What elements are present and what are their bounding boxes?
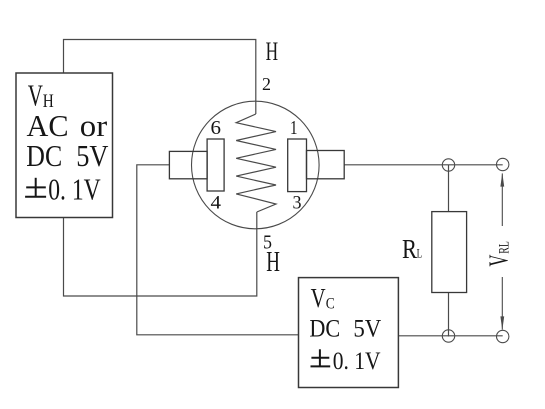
svg-text:R: R <box>402 233 418 264</box>
svg-text:H: H <box>266 37 279 66</box>
svg-text:1: 1 <box>290 117 298 139</box>
svg-text:DC: DC <box>309 313 340 342</box>
heater resistor zigzag <box>236 114 276 212</box>
svg-text:V: V <box>482 255 513 267</box>
svg-text:0. 1V: 0. 1V <box>48 172 100 206</box>
VRL arrowhead down <box>500 316 504 330</box>
svg-text:6: 6 <box>211 117 222 139</box>
label VRL output voltage rotated <box>482 241 513 266</box>
wire RL bottom branch <box>448 293 450 337</box>
wire right electrode to output node <box>344 164 503 166</box>
svg-text:H: H <box>266 247 280 278</box>
svg-text:L: L <box>417 245 423 260</box>
svg-text:0. 1V: 0. 1V <box>333 346 381 375</box>
left electrode plate (pins 6,4) <box>207 139 224 191</box>
node terminal top-left <box>442 159 454 171</box>
svg-text:5V: 5V <box>353 313 381 342</box>
svg-text:2: 2 <box>262 74 271 94</box>
power supply VC box <box>299 278 399 388</box>
label VC line3 plus-minus sign <box>311 349 331 366</box>
left pin connector block <box>169 151 207 178</box>
VRL arrowhead up <box>500 173 504 187</box>
load resistor RL body <box>432 212 467 293</box>
svg-text:DC: DC <box>26 139 62 173</box>
node terminal bottom-right <box>497 330 509 342</box>
label VH line4 plus-minus sign <box>25 178 46 197</box>
node terminal bottom-left <box>442 330 454 342</box>
svg-text:V: V <box>28 79 43 113</box>
svg-text:AC: AC <box>27 109 69 143</box>
svg-text:5V: 5V <box>76 139 108 173</box>
node terminal top-right <box>497 158 509 170</box>
power supply VH box <box>16 73 113 218</box>
wire bottom-left from VH box to pin 5 <box>64 212 257 296</box>
right electrode plate (pins 1,3) <box>288 139 307 192</box>
sensor envelope circle <box>192 101 320 229</box>
svg-text:3: 3 <box>293 194 302 214</box>
svg-text:C: C <box>326 295 335 312</box>
svg-text:or: or <box>80 109 107 143</box>
svg-text:RL: RL <box>496 241 512 254</box>
svg-text:V: V <box>311 283 326 313</box>
svg-text:4: 4 <box>211 194 222 214</box>
wire left electrode to VC box <box>137 165 299 335</box>
wire bottom rail from VC box <box>398 335 502 337</box>
wire RL top branch <box>448 165 450 212</box>
wire top from VH box to pin 2 <box>64 40 256 115</box>
VRL measurement arrow line <box>501 174 503 330</box>
right pin connector block <box>307 151 345 179</box>
